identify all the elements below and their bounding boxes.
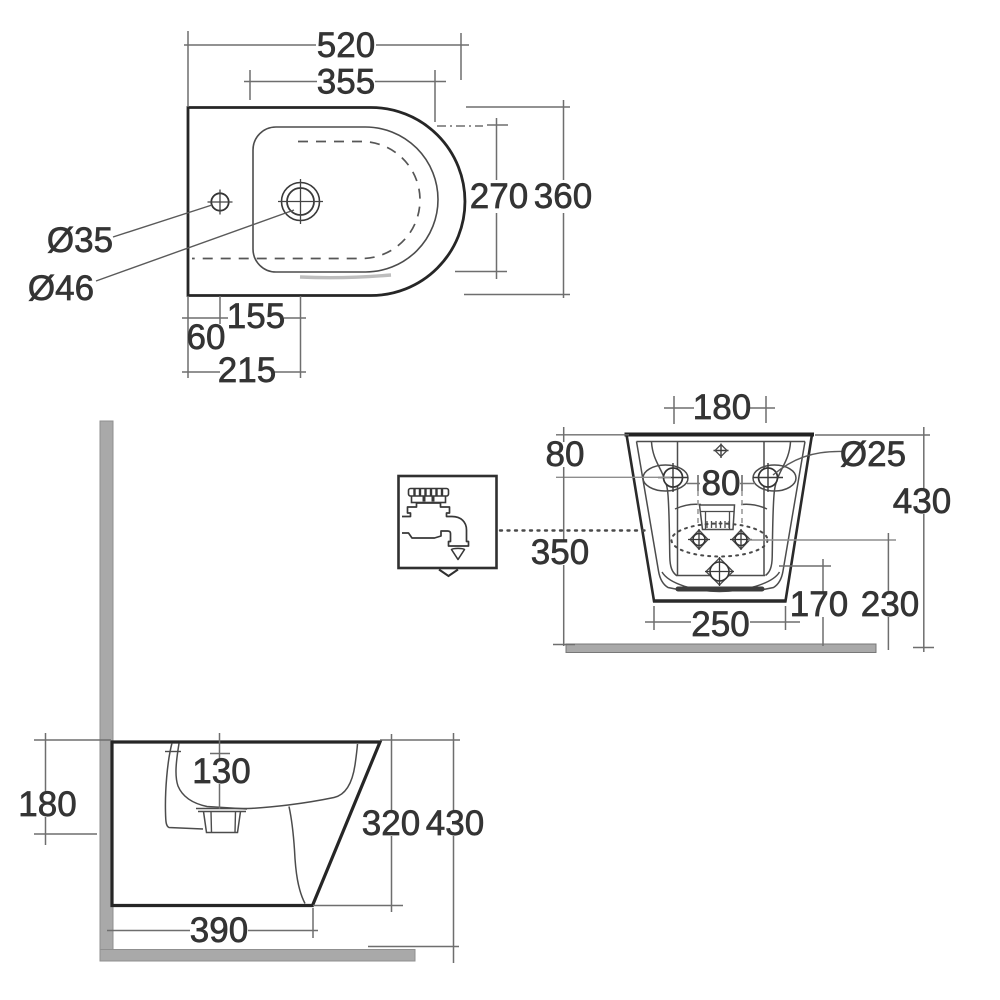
left small hole circle xyxy=(693,534,705,546)
dimension 520 extension line right xyxy=(460,33,462,80)
dimension 355 extension line right xyxy=(434,70,436,122)
dimension 170 extension (rear view) xyxy=(779,565,831,567)
dimension 130 line (side view) xyxy=(219,733,221,809)
dimension 270 line xyxy=(496,118,498,279)
top center cross diamond xyxy=(715,445,727,457)
dimension 80 middle text (rear view) xyxy=(704,471,738,496)
svg-text:Ø46: Ø46 xyxy=(28,269,94,308)
svg-text:355: 355 xyxy=(317,63,375,102)
extension line x=300 below plan xyxy=(300,296,302,378)
tap hole cross Ø35 xyxy=(208,190,233,215)
dimension 170 line (rear view) xyxy=(822,559,824,646)
left small hole cross xyxy=(688,529,710,550)
bottom hole cross xyxy=(705,557,734,586)
svg-text:130: 130 xyxy=(192,752,250,791)
dimension 155 line xyxy=(182,317,306,319)
drain trap cup (side view) xyxy=(204,812,241,833)
extension line x=188 below plan xyxy=(187,296,189,378)
svg-text:80: 80 xyxy=(546,435,585,474)
dimension 180 line (rear view) xyxy=(664,407,775,409)
basin back wall outer (side view) xyxy=(165,743,203,829)
dimension 350 text (rear view) xyxy=(532,540,589,565)
drain trap cup inner walls (side view) xyxy=(211,812,236,833)
dimension 320 extension bottom (side view) xyxy=(313,905,403,907)
drain hole outer circle Ø46 (plan view) xyxy=(282,183,320,221)
bidet outline (side view) xyxy=(112,742,380,906)
svg-text:390: 390 xyxy=(190,911,248,950)
dimension 180 line (side view) xyxy=(45,733,47,845)
bidet outer outline (plan view) xyxy=(188,108,465,296)
dimension 130 tick (side view) xyxy=(210,753,230,755)
dimension 230 line (rear view) xyxy=(887,533,889,650)
dimension 80 left extension bottom (rear view) xyxy=(556,476,671,478)
svg-text:Ø25: Ø25 xyxy=(840,435,906,474)
dimension 360 line xyxy=(563,100,565,298)
dimension 180 extension top (side view) xyxy=(34,739,111,741)
dimension 230 text (rear view) xyxy=(861,592,919,617)
spout shoulder right (rear view) xyxy=(741,504,767,509)
leader line Ø46 xyxy=(96,210,294,281)
dimension 360 extension bottom xyxy=(464,294,570,296)
extension line x=220 below plan xyxy=(219,296,221,324)
faucet handle lower bar xyxy=(412,496,446,503)
svg-text:350: 350 xyxy=(531,533,589,572)
dotted connection line tap to bidet xyxy=(500,529,650,531)
dimension 430 line (side view) xyxy=(453,733,455,963)
bidet bottom edge (rear view) xyxy=(653,599,787,603)
dimension 250 extension right (rear view) xyxy=(785,606,787,630)
dimension 170 text (rear view) xyxy=(791,592,849,617)
dimension 130 text (side view) xyxy=(194,759,250,784)
right mounting hole circle xyxy=(759,468,778,487)
drain trap flange (side view) xyxy=(196,809,248,812)
dimension 430 text (side view) xyxy=(426,811,483,836)
right small hole diamond (rear view) xyxy=(732,530,750,549)
drain hole inner circle Ø46 xyxy=(287,188,314,215)
basin rim dashed contour (plan view) xyxy=(192,142,420,259)
spout box (rear view) xyxy=(700,505,735,530)
svg-text:430: 430 xyxy=(426,804,484,843)
dimension 520 line xyxy=(184,44,469,46)
dimension 180 extension left (rear view) xyxy=(673,396,675,424)
dimension 430 extension top (side view) xyxy=(380,739,460,741)
recess bottom line (rear view) xyxy=(676,575,765,577)
dimension 355 line xyxy=(244,81,446,83)
interior bottom smile curve (rear view) xyxy=(662,572,780,592)
drain hole cross Ø46 xyxy=(278,179,323,224)
left small hole diamond (rear view) xyxy=(690,530,708,549)
svg-text:170: 170 xyxy=(790,585,848,624)
floor bar (rear view) xyxy=(566,644,876,653)
dimension 80 left extension top (rear view) xyxy=(556,434,629,436)
dimension 430 tick bottom (rear view) xyxy=(913,647,934,649)
faucet drop xyxy=(452,548,465,559)
top center cross symbol (rear view) xyxy=(714,444,729,459)
right small hole circle xyxy=(735,534,747,546)
spout box inner verticals xyxy=(706,512,730,529)
dimension 430 extension bottom (side view) xyxy=(368,946,459,948)
left recess blade line (rear view) xyxy=(652,442,677,576)
dimension 320 text (side view) xyxy=(363,811,420,836)
dimension 80-350 vertical line (rear view) xyxy=(563,427,565,646)
right mounting hole cross xyxy=(753,463,783,492)
dimension 80 middle line (rear view) xyxy=(687,483,755,485)
basin rim tick (side view) xyxy=(165,751,181,753)
dashed ellipse (rear view) xyxy=(672,524,768,557)
svg-text:180: 180 xyxy=(18,785,76,824)
dimension 320 line (side view) xyxy=(391,734,393,912)
svg-text:520: 520 xyxy=(317,26,375,65)
faucet handle lower marks xyxy=(424,497,433,502)
dimension 250 extension left (rear view) xyxy=(653,606,655,630)
svg-text:155: 155 xyxy=(227,297,285,336)
left recess box edge (rear view) xyxy=(677,442,679,576)
basin back wall inner (side view) xyxy=(176,744,247,810)
dimension 180 text (side view) xyxy=(19,792,76,817)
svg-text:430: 430 xyxy=(893,482,951,521)
dimension 430 extension top (rear view) xyxy=(815,434,930,436)
faucet body outline xyxy=(402,503,469,546)
faucet handle stripes xyxy=(415,489,443,496)
leader line Ø25 (rear view) xyxy=(773,451,842,475)
bidet top edge (rear view) xyxy=(625,433,815,437)
leader line Ø35 xyxy=(113,205,212,237)
basin shadow line (plan view) xyxy=(300,275,391,278)
floor bar (side view) xyxy=(100,950,415,962)
bidet inner basin outline (plan view) xyxy=(253,127,438,272)
svg-text:270: 270 xyxy=(470,177,528,216)
tap symbol box xyxy=(399,476,497,568)
dimension 520 extension line left xyxy=(187,31,189,107)
dimension 360 extension top xyxy=(466,106,570,108)
bottom hole circle xyxy=(710,562,729,581)
dimension 180 extension right (rear view) xyxy=(765,396,767,423)
right recess blade line (rear view) xyxy=(766,442,791,576)
spout shoulder left (rear view) xyxy=(675,504,701,509)
basin bowl and front wall (side view) xyxy=(248,744,358,809)
dimension 270 extension bottom xyxy=(455,271,507,273)
bidet outer outline (rear view) xyxy=(627,435,813,602)
dimension 230 extension (rear view) xyxy=(748,539,896,541)
svg-text:360: 360 xyxy=(534,177,592,216)
dimension 180 extension bottom (side view) xyxy=(34,833,97,835)
dimension 390 line (side view) xyxy=(107,930,318,932)
dimension 80 middle dashed extensions (rear view) xyxy=(698,491,742,527)
front overflow line (side view) xyxy=(289,807,305,904)
faucet handle top bar xyxy=(409,489,449,497)
tap hole circle Ø35 (plan view) xyxy=(211,193,228,210)
right small hole cross xyxy=(730,529,752,550)
left mounting hole ellipse (rear view) xyxy=(643,465,688,491)
dimension 390 extension right (side view) xyxy=(312,908,314,938)
left mounting hole circle xyxy=(664,468,683,487)
left mounting hole cross xyxy=(658,463,688,492)
dimension 430 text (rear view) xyxy=(893,489,951,514)
dimension 80 left text (rear view) xyxy=(548,442,582,467)
bottom drain band (rear view) xyxy=(678,587,762,592)
svg-text:80: 80 xyxy=(702,464,741,503)
dimension 430 line (rear view) xyxy=(923,427,925,652)
svg-text:180: 180 xyxy=(693,388,751,427)
dimension 215 line xyxy=(182,371,306,373)
right mounting hole ellipse (rear view) xyxy=(753,465,796,491)
svg-text:Ø35: Ø35 xyxy=(47,221,113,260)
dimension 270 extension top (dash-dot) xyxy=(437,125,483,127)
dimension 80 middle ticks (rear view) xyxy=(698,475,742,491)
svg-text:230: 230 xyxy=(861,585,919,624)
dimension 250 line (rear view) xyxy=(645,621,800,623)
spout grille ticks xyxy=(707,521,729,528)
dimension 355 extension line left xyxy=(249,70,251,100)
spout box mid line xyxy=(701,511,734,513)
bidet inner outline (rear view) xyxy=(637,442,806,590)
wall bar (side view) xyxy=(100,421,113,961)
svg-text:320: 320 xyxy=(362,804,420,843)
dimension 350 bottom tick (rear view) xyxy=(553,644,575,646)
bottom hole diamond (rear view) xyxy=(706,558,733,585)
svg-text:215: 215 xyxy=(218,351,276,390)
svg-text:250: 250 xyxy=(691,605,749,644)
right recess box edge (rear view) xyxy=(763,442,765,576)
tap box bottom notch xyxy=(439,570,458,577)
